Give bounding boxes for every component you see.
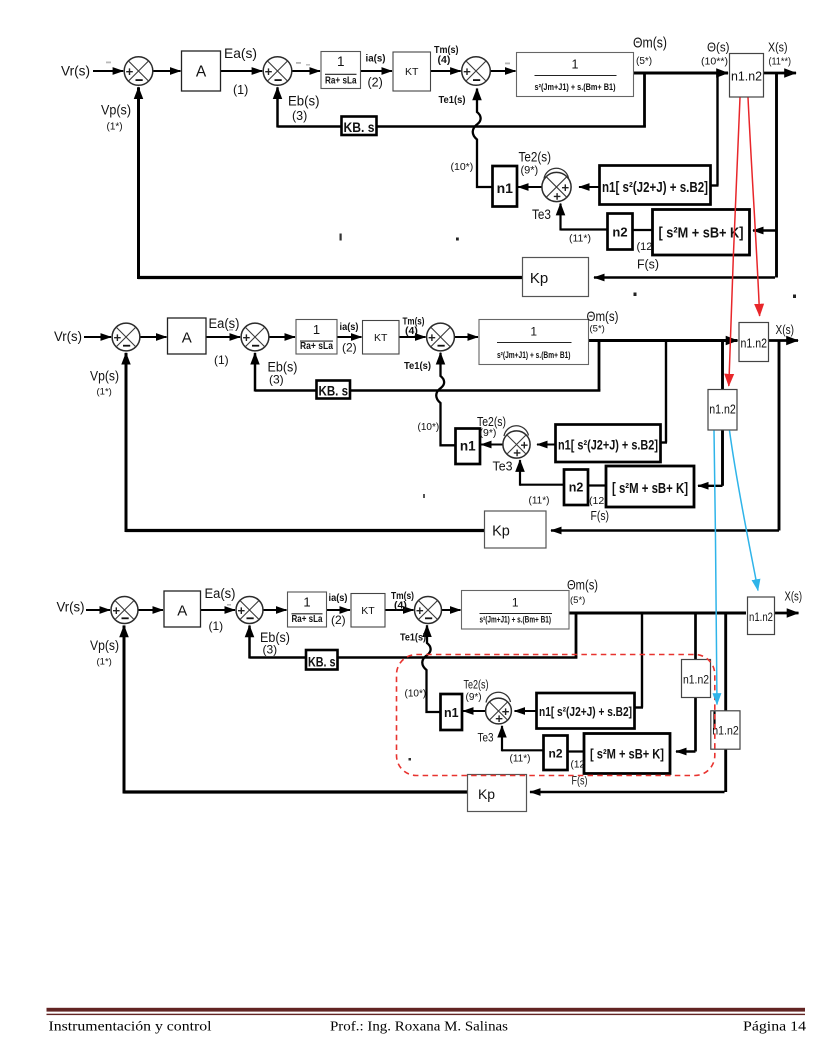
svg-text:X(s): X(s) [776, 323, 795, 337]
svg-text:(11*): (11*) [510, 754, 531, 765]
svg-text:F(s): F(s) [637, 257, 659, 272]
svg-text:n2: n2 [548, 746, 562, 760]
svg-text:KB. s: KB. s [344, 120, 375, 135]
svg-text:(2): (2) [331, 613, 346, 627]
svg-text:1: 1 [313, 322, 320, 337]
svg-text:KT: KT [405, 66, 419, 78]
svg-text:[ s²M + sB+ K]: [ s²M + sB+ K] [590, 746, 664, 762]
svg-text:(2): (2) [368, 76, 383, 90]
svg-text:s²(Jm+J1) + s.(Bm+ B1): s²(Jm+J1) + s.(Bm+ B1) [535, 82, 616, 92]
svg-text:(12: (12 [571, 760, 586, 771]
svg-text:n1.n2: n1.n2 [741, 336, 768, 350]
svg-text:(1): (1) [233, 83, 248, 97]
svg-text:(10*): (10*) [451, 161, 474, 173]
svg-text:[ s²M + sB+ K]: [ s²M + sB+ K] [659, 225, 744, 242]
svg-text:F(s): F(s) [591, 508, 610, 523]
svg-text:Te3: Te3 [493, 459, 513, 474]
svg-text:n1.n2: n1.n2 [712, 724, 739, 738]
svg-text:A: A [182, 330, 192, 347]
svg-text:Instrumentación y control: Instrumentación y control [49, 1019, 212, 1034]
svg-text:Te3: Te3 [532, 207, 551, 222]
svg-text:(1): (1) [214, 353, 229, 367]
svg-text:(4): (4) [405, 325, 418, 337]
svg-text:1: 1 [530, 325, 537, 339]
svg-text:(4): (4) [438, 54, 451, 66]
svg-text:n1: n1 [460, 439, 476, 454]
svg-text:Ea(s): Ea(s) [209, 316, 240, 331]
svg-text:n1[ s²(J2+J) + s.B2]: n1[ s²(J2+J) + s.B2] [558, 438, 658, 453]
svg-text:Θm(s): Θm(s) [633, 36, 667, 52]
svg-text:Θm(s): Θm(s) [587, 308, 619, 324]
svg-text:(3): (3) [292, 109, 307, 123]
svg-text:Vp(s): Vp(s) [90, 638, 119, 653]
svg-text:n1[ s²(J2+J) + s.B2]: n1[ s²(J2+J) + s.B2] [539, 704, 632, 719]
svg-text:ia(s): ia(s) [340, 322, 359, 333]
svg-text:(9*): (9*) [480, 427, 497, 439]
svg-text:n1.n2: n1.n2 [731, 69, 762, 84]
svg-text:X(s): X(s) [785, 590, 803, 604]
svg-text:(9*): (9*) [466, 692, 482, 703]
svg-text:(9*): (9*) [521, 165, 539, 177]
svg-text:Te1(s): Te1(s) [400, 632, 426, 644]
svg-text:Te2(s): Te2(s) [464, 680, 489, 692]
svg-text:1: 1 [303, 595, 310, 610]
svg-text:(1*): (1*) [107, 122, 123, 133]
svg-text:n1.n2: n1.n2 [683, 673, 709, 687]
svg-text:(11**): (11**) [769, 57, 792, 68]
svg-text:Ea(s): Ea(s) [224, 45, 257, 61]
svg-text:Te1(s): Te1(s) [404, 360, 431, 372]
svg-text:(10*): (10*) [405, 689, 427, 700]
svg-text:(4): (4) [394, 600, 407, 612]
svg-text:n1: n1 [497, 180, 514, 196]
svg-text:Θ(s): Θ(s) [707, 40, 730, 55]
svg-text:Ra+ sLa: Ra+ sLa [292, 614, 323, 625]
svg-text:ia(s): ia(s) [366, 53, 386, 65]
svg-text:1: 1 [512, 596, 519, 610]
svg-text:(1*): (1*) [97, 657, 112, 668]
svg-text:Kp: Kp [530, 270, 548, 287]
svg-text:n1: n1 [444, 706, 459, 720]
svg-text:(10*): (10*) [418, 422, 440, 433]
svg-text:[ s²M + sB+ K]: [ s²M + sB+ K] [612, 481, 688, 497]
svg-text:(1*): (1*) [97, 387, 112, 398]
svg-text:Vp(s): Vp(s) [90, 369, 119, 384]
svg-text:(11*): (11*) [569, 233, 591, 245]
svg-text:Vp(s): Vp(s) [101, 102, 131, 118]
svg-text:(12: (12 [589, 495, 604, 507]
svg-text:(12: (12 [637, 241, 653, 253]
svg-text:n2: n2 [612, 225, 627, 240]
svg-text:X(s): X(s) [768, 40, 788, 55]
svg-text:Te2(s): Te2(s) [519, 150, 552, 165]
svg-text:Página 14: Página 14 [743, 1019, 806, 1034]
svg-text:(1): (1) [209, 619, 224, 633]
svg-text:Kp: Kp [492, 524, 510, 540]
svg-text:KT: KT [374, 332, 388, 344]
svg-text:(5*): (5*) [570, 595, 585, 606]
svg-text:n1[ s²(J2+J) + s.B2]: n1[ s²(J2+J) + s.B2] [602, 180, 708, 196]
svg-text:1: 1 [572, 58, 579, 72]
svg-text:Prof.: Ing. Roxana M. Salinas: Prof.: Ing. Roxana M. Salinas [330, 1019, 508, 1034]
svg-text:(5*): (5*) [636, 56, 652, 67]
svg-text:Vr(s): Vr(s) [61, 63, 90, 79]
svg-text:Vr(s): Vr(s) [54, 329, 82, 344]
svg-text:ia(s): ia(s) [329, 593, 348, 604]
svg-text:n1.n2: n1.n2 [709, 403, 736, 417]
svg-text:n2: n2 [569, 481, 584, 495]
svg-text:KT: KT [361, 605, 375, 617]
svg-text:KB. s: KB. s [319, 384, 349, 399]
svg-text:Te1(s): Te1(s) [439, 94, 466, 106]
svg-text:Θm(s): Θm(s) [567, 578, 598, 593]
svg-text:(10**): (10**) [701, 57, 728, 68]
svg-text:A: A [196, 64, 207, 81]
svg-text:Kp: Kp [478, 786, 495, 802]
svg-text:1: 1 [337, 54, 345, 69]
svg-text:(2): (2) [342, 341, 357, 355]
svg-text:s²(Jm+J1) + s.(Bm+ B1): s²(Jm+J1) + s.(Bm+ B1) [497, 350, 571, 360]
svg-text:(11*): (11*) [529, 496, 550, 507]
svg-text:Te3: Te3 [478, 731, 494, 745]
svg-text:A: A [177, 603, 187, 620]
svg-text:n1.n2: n1.n2 [749, 610, 773, 624]
svg-text:(5*): (5*) [590, 324, 605, 335]
svg-text:(3): (3) [263, 643, 278, 657]
svg-text:Ea(s): Ea(s) [205, 586, 236, 601]
svg-text:(3): (3) [269, 373, 284, 387]
svg-text:Ra+ sLa: Ra+ sLa [325, 76, 357, 87]
svg-text:Ra+ sLa: Ra+ sLa [300, 341, 333, 352]
svg-text:s²(Jm+J1) + s.(Bm+ B1): s²(Jm+J1) + s.(Bm+ B1) [480, 615, 552, 625]
svg-text:KB. s: KB. s [308, 655, 336, 670]
svg-text:Vr(s): Vr(s) [57, 600, 85, 615]
svg-text:Eb(s): Eb(s) [288, 93, 320, 109]
